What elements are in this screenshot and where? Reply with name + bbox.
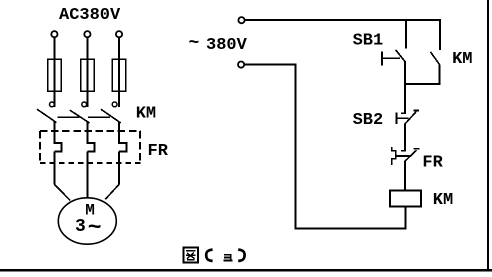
svg-text:~: ~ [88,215,102,241]
contact KM auxiliary (NO) [430,52,439,65]
fuse FU1 [48,59,61,91]
wire SB2 to FR [404,124,406,151]
coil KM [390,190,421,206]
wire L3 heater to motor [118,152,120,185]
wire KM aux branch lower [439,64,441,85]
motor M circle [58,198,116,244]
mechanical linkage dashed segment 1 [57,116,79,118]
label ~380V [189,34,248,55]
wire L2 contact to heater [86,122,88,144]
node L1 terminal [51,31,57,37]
wire L2 heater to motor [86,152,88,198]
FR heater element 3 [119,143,126,152]
svg-text:KM: KM [136,105,156,124]
fuse FU3 [112,59,125,91]
node L3 terminal [116,31,122,37]
wire control bottom rail [295,228,407,230]
wire SB1 branch drop [405,20,407,49]
node control terminal top [238,17,244,23]
wire control top rail [245,19,441,21]
caption letter a [224,254,233,260]
fuse FU2 [81,59,94,91]
contactor KM main contact 2 [70,102,90,123]
svg-text:KM: KM [452,50,472,69]
wire L3 contact to heater [118,122,120,144]
thermal relay FR dashed box [40,131,141,163]
contactor KM main contact 3 [101,102,121,123]
svg-text:3: 3 [75,217,86,237]
wire FR to coil [404,161,406,191]
wire L3 to fuse [118,38,120,108]
svg-text:KM: KM [433,191,453,210]
contactor KM main contact 1 [37,102,57,123]
wire junction horizontal [404,83,440,85]
wire L3 lead-in diagonal [105,184,119,199]
wire left return branch [244,65,296,229]
svg-text:SB1: SB1 [353,31,384,50]
node control terminal bottom [238,62,244,68]
svg-text:FR: FR [422,154,443,173]
wire L1 lead-in diagonal [54,184,70,200]
pushbutton SB2 (NO start) [396,111,419,125]
wire L2 to fuse [86,38,88,108]
wire SB1 to SB2 [404,62,406,113]
caption character tu (figure) [184,248,199,263]
wire L1 to fuse [53,38,55,108]
FR heater element 2 [87,143,94,152]
pushbutton SB1 (NC stop) [381,50,406,66]
wire coil to bottom rail [405,207,407,230]
border right line [487,0,489,271]
wire KM aux branch drop [439,20,441,50]
wire L1 contact to heater [53,122,55,145]
svg-text:380V: 380V [206,36,248,55]
node L2 terminal [84,31,90,37]
svg-text:~: ~ [189,34,200,54]
contact FR (NC thermal) [392,147,420,165]
border bottom line [0,269,492,271]
FR heater element 1 [54,143,61,152]
wire L1 heater to motor [53,152,55,185]
caption close paren [238,250,244,261]
svg-text:AC380V: AC380V [59,6,121,25]
svg-text:FR: FR [148,142,169,161]
svg-text:SB2: SB2 [353,111,384,130]
mechanical linkage dashed segment 2 [88,116,110,118]
caption open paren [206,250,212,261]
